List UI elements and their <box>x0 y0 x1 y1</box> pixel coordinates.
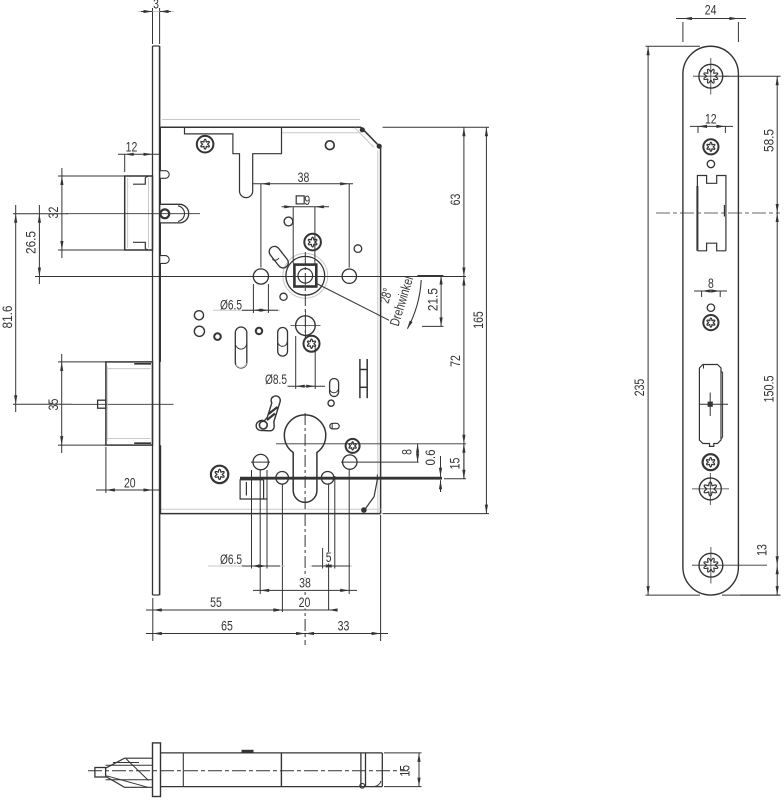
rotation arc 28 degrees <box>408 280 422 329</box>
svg-text:33: 33 <box>338 618 350 633</box>
svg-text:65: 65 <box>221 618 233 633</box>
hole right of nut on centerline <box>342 269 356 283</box>
profile cylinder hole (euro profile) <box>284 415 325 503</box>
cylinder horizontal centerline <box>276 443 466 445</box>
svg-text:9: 9 <box>304 193 310 208</box>
deadbolt body <box>106 362 153 445</box>
lock case top-right chamfer <box>361 127 381 147</box>
hole on slide line left <box>276 472 289 485</box>
lock case right wall <box>380 148 382 514</box>
hole dia-8.5 below nut <box>296 316 316 336</box>
torx screw above nut <box>304 234 321 251</box>
right-side extension lines <box>722 75 781 77</box>
change lever (hatched boot shape) <box>256 396 280 431</box>
small hole row left a <box>194 311 203 320</box>
deadbolt opening in faceplate <box>699 365 721 447</box>
hole right on cylinder line <box>343 455 357 469</box>
oblong hole center-low <box>278 328 288 357</box>
bottom view faceplate flange <box>153 743 161 797</box>
svg-text:12: 12 <box>705 112 717 127</box>
oblong hole upper-left of nut <box>267 244 290 270</box>
svg-text:13: 13 <box>755 544 770 556</box>
trip lever bottom-right <box>366 477 381 508</box>
svg-text:15: 15 <box>448 458 463 470</box>
svg-text:81.6: 81.6 <box>0 306 15 329</box>
svg-text:235: 235 <box>632 379 647 397</box>
lock case left wall <box>159 127 161 170</box>
svg-text:38: 38 <box>298 170 310 185</box>
nut horizontal centerline <box>35 276 466 278</box>
svg-text:150.5: 150.5 <box>762 376 777 403</box>
torx screw right of cylinder <box>346 439 360 453</box>
latch bolt head <box>125 176 153 250</box>
small pill near cylinder <box>330 423 339 429</box>
deadbolt centerline <box>72 403 174 405</box>
svg-text:63: 63 <box>448 194 463 206</box>
small hole right <box>354 245 362 253</box>
svg-text:165: 165 <box>471 311 486 329</box>
svg-text:8: 8 <box>399 449 414 455</box>
hole left on cylinder line <box>253 454 268 469</box>
torx screw bottom-left <box>211 466 228 483</box>
oblong hole left-low <box>235 327 247 368</box>
dimension 20 bottom <box>297 597 313 609</box>
leader line to nut square <box>317 284 390 321</box>
faceplate (left view, edge-on strip) <box>152 46 154 595</box>
small hole below-left of nut <box>280 293 287 300</box>
svg-text:38: 38 <box>299 575 311 590</box>
svg-text:32: 32 <box>46 207 61 219</box>
bolt guide screw (heavy) <box>703 454 719 470</box>
latch axis centerline right view <box>656 212 780 214</box>
svg-text:24: 24 <box>705 3 717 18</box>
small hole above bolt screw <box>707 304 714 311</box>
svg-text:Ø6.5: Ø6.5 <box>220 552 242 567</box>
small hole row left b <box>194 326 204 336</box>
small pin c <box>214 333 221 340</box>
svg-text:26.5: 26.5 <box>24 231 39 254</box>
svg-text:55: 55 <box>210 595 222 610</box>
heavy slide line <box>240 477 442 480</box>
bottom view centerline <box>88 770 408 772</box>
bottom view latch bolt <box>95 768 106 778</box>
cover plate inner edge and hanging slot <box>185 127 282 197</box>
small hole below oblong <box>328 400 334 406</box>
dimension 5 bottom <box>325 552 334 564</box>
small hole below screw <box>707 160 714 167</box>
svg-text:58.5: 58.5 <box>762 129 777 152</box>
cylinder vertical centerline <box>304 413 306 509</box>
nut outer circle <box>286 256 325 295</box>
svg-text:35: 35 <box>46 399 61 411</box>
faceplate clip tab upper <box>160 171 169 179</box>
hole on slide line right <box>321 472 334 485</box>
small box bottom-left <box>240 480 268 499</box>
nut vertical centerline <box>304 252 306 339</box>
bottom view lock body <box>161 752 383 754</box>
torx screw lower-mid <box>699 478 721 500</box>
svg-text:72: 72 <box>448 355 463 367</box>
svg-text:0.6: 0.6 <box>423 450 438 466</box>
svg-text:8: 8 <box>708 276 714 291</box>
svg-text:20: 20 <box>124 476 136 491</box>
svg-text:3: 3 <box>153 0 159 12</box>
deadbolt front pin <box>98 400 106 408</box>
small hole left of screw <box>284 217 293 226</box>
line 8mm below cylinder center <box>251 461 270 463</box>
latch-plate screw <box>703 139 718 154</box>
bolt-plate screw <box>703 315 718 330</box>
latch centerline <box>66 213 200 215</box>
svg-text:15: 15 <box>398 765 413 777</box>
dimension 38 bottom <box>297 578 313 590</box>
spring (ladder) right of cylinder <box>359 359 361 398</box>
top mounting screw <box>699 64 723 88</box>
faceplate front outline <box>683 46 739 595</box>
torx screw below nut <box>304 336 320 352</box>
svg-text:20: 20 <box>299 595 311 610</box>
svg-text:5: 5 <box>326 550 332 565</box>
oblong hole right of cylinder <box>330 379 339 397</box>
lock case top edge <box>160 126 361 128</box>
svg-text:21.5: 21.5 <box>425 288 440 311</box>
svg-text:Ø8.5: Ø8.5 <box>265 372 287 387</box>
nut inner circle <box>298 269 313 284</box>
torx screw top-left of case <box>197 136 214 153</box>
small hole top-center-right <box>325 141 334 150</box>
latch tail pill behind faceplate <box>160 204 189 223</box>
small pin d <box>256 328 262 334</box>
bottom mounting screw <box>699 553 723 577</box>
grey echo ring around nut <box>283 253 328 298</box>
deadbolt pin (black square) <box>708 402 712 406</box>
faceplate clip tab lower <box>160 256 169 264</box>
extension lines to bottom dimensions <box>251 470 253 569</box>
latch opening in faceplate <box>697 176 726 187</box>
lock case bottom edge <box>160 513 380 515</box>
nut square 9mm (heavy) <box>294 265 316 287</box>
hole left of nut on centerline <box>253 269 268 284</box>
dimension 3 (faceplate thickness) <box>152 8 154 44</box>
svg-text:12: 12 <box>126 140 138 155</box>
